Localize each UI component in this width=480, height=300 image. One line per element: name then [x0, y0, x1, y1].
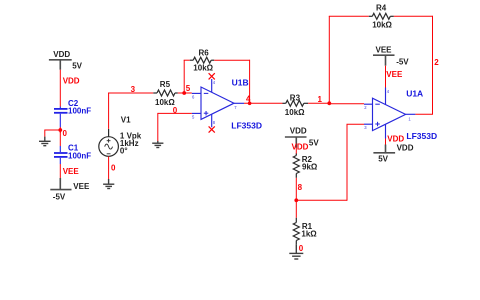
svg-text:U1B: U1B: [232, 78, 249, 88]
svg-text:LF353D: LF353D: [231, 121, 262, 131]
svg-text:LF353D: LF353D: [406, 131, 437, 141]
svg-text:0: 0: [299, 244, 304, 253]
wire V1 minus to ground: [108, 156, 110, 179]
wire node 0 to C1: [59, 130, 61, 146]
no-connect X bottom (U1B): [209, 126, 215, 132]
svg-text:R3: R3: [290, 94, 301, 103]
wire C2 to node 0: [59, 127, 61, 133]
wire U1A output to net 2 vertical: [415, 113, 433, 115]
svg-text:VDD: VDD: [292, 143, 309, 152]
svg-text:3: 3: [131, 85, 136, 94]
svg-text:VDD: VDD: [387, 135, 404, 144]
svg-text:2: 2: [434, 58, 439, 67]
ground (U1B +): [152, 141, 163, 148]
V1 plus mark: [107, 139, 111, 143]
svg-text:0: 0: [111, 163, 116, 172]
svg-text:5V: 5V: [309, 138, 319, 147]
wire VDD rail to R2: [295, 148, 297, 155]
source V1: [99, 129, 119, 156]
ground (left of node 0): [39, 137, 51, 146]
capacitor C2: [54, 107, 68, 128]
U1A minus glyph: [375, 103, 380, 105]
svg-text:VEE: VEE: [73, 182, 90, 191]
wire VDD rail to C2: [59, 70, 61, 107]
op-amp U1B: [192, 79, 244, 127]
svg-text:0: 0: [63, 129, 68, 138]
svg-text:R5: R5: [160, 80, 171, 89]
junction node 0 (mid-left): [58, 128, 62, 132]
svg-text:5V: 5V: [378, 154, 388, 163]
svg-text:R4: R4: [376, 4, 387, 13]
ground (below V1): [103, 179, 114, 189]
svg-text:4: 4: [246, 95, 251, 104]
U1B plus glyph: [204, 111, 209, 115]
wire node 8 to U1A plus input: [296, 124, 364, 201]
svg-text:9kΩ: 9kΩ: [302, 162, 318, 171]
svg-text:VDD: VDD: [53, 50, 70, 59]
power VDD rail top-left: [49, 60, 72, 70]
resistor R6: [190, 57, 214, 63]
power VDD rail (above R2): [285, 137, 307, 148]
wire R3 to node 1: [308, 102, 329, 104]
wire R4 top left segment: [329, 15, 369, 17]
wire U1B plus input to ground (net 0): [158, 113, 192, 141]
U1A plus glyph: [375, 122, 380, 126]
svg-text:VDD: VDD: [397, 144, 414, 153]
svg-text:VEE: VEE: [376, 46, 393, 55]
svg-text:10kΩ: 10kΩ: [285, 108, 305, 117]
wire node 8 to R1: [295, 200, 297, 218]
V1 sine: [105, 144, 113, 149]
resistor R4: [369, 13, 394, 19]
junction node 4: [248, 102, 252, 106]
resistor R3: [283, 100, 309, 106]
svg-text:8: 8: [298, 183, 303, 192]
wire R6 top left segment: [184, 59, 190, 61]
power VDD rail (below U1A): [373, 145, 395, 153]
wire V1 plus to R5 (net 3): [108, 93, 153, 129]
svg-text:VEE: VEE: [63, 167, 80, 176]
svg-text:0: 0: [173, 106, 178, 115]
svg-text:VDD: VDD: [63, 77, 80, 86]
op-amp U1A: [364, 88, 415, 139]
resistor R5: [153, 90, 178, 96]
svg-text:5: 5: [186, 84, 191, 93]
V1 minus mark: [107, 153, 111, 155]
svg-text:VEE: VEE: [386, 70, 403, 79]
resistor R2: [293, 154, 299, 178]
svg-text:U1A: U1A: [406, 88, 423, 98]
junction node 8: [294, 198, 298, 202]
ground (below R1): [289, 244, 303, 259]
U1B minus glyph: [204, 92, 209, 94]
svg-text:-5V: -5V: [53, 192, 66, 201]
wire R2 to node 8: [295, 178, 297, 201]
power VEE rail bottom-left: [50, 178, 71, 190]
wire node 5 up to R6: [183, 60, 185, 93]
svg-text:R6: R6: [199, 49, 210, 58]
capacitor C1: [54, 146, 68, 164]
wire U1A bottom power pin to VDD rail: [385, 139, 387, 145]
svg-text:VDD: VDD: [290, 126, 307, 135]
junction node 5: [182, 91, 186, 95]
svg-text:1kΩ: 1kΩ: [301, 229, 317, 238]
wire node 0 to ground: [45, 130, 61, 137]
resistor R1: [293, 218, 299, 244]
power VEE rail (above U1A): [373, 55, 395, 65]
svg-text:100nF: 100nF: [68, 151, 91, 160]
wire R5 to U1B inverting input (net 5): [178, 92, 192, 94]
svg-text:1: 1: [318, 95, 323, 104]
wire node 1 to U1A inverting input: [329, 103, 364, 105]
wire node 1 up to R4: [328, 16, 330, 103]
svg-text:100nF: 100nF: [68, 107, 91, 116]
svg-text:5V: 5V: [72, 61, 82, 70]
junction node 1: [327, 101, 331, 105]
svg-text:10kΩ: 10kΩ: [193, 64, 213, 73]
svg-text:10kΩ: 10kΩ: [372, 20, 392, 29]
wire C1 to VEE rail: [59, 164, 61, 178]
svg-text:V1: V1: [121, 115, 131, 124]
svg-text:0°: 0°: [120, 147, 128, 156]
svg-text:-5V: -5V: [396, 58, 409, 67]
wire R6 to output node (net 4): [214, 60, 249, 104]
wire R4 to U1A output (net 2): [394, 16, 433, 115]
wire U1B output to R3 (net 4): [244, 102, 283, 104]
no-connect X top (U1B): [209, 73, 215, 79]
wire VEE rail to U1A top power pin: [385, 66, 387, 88]
